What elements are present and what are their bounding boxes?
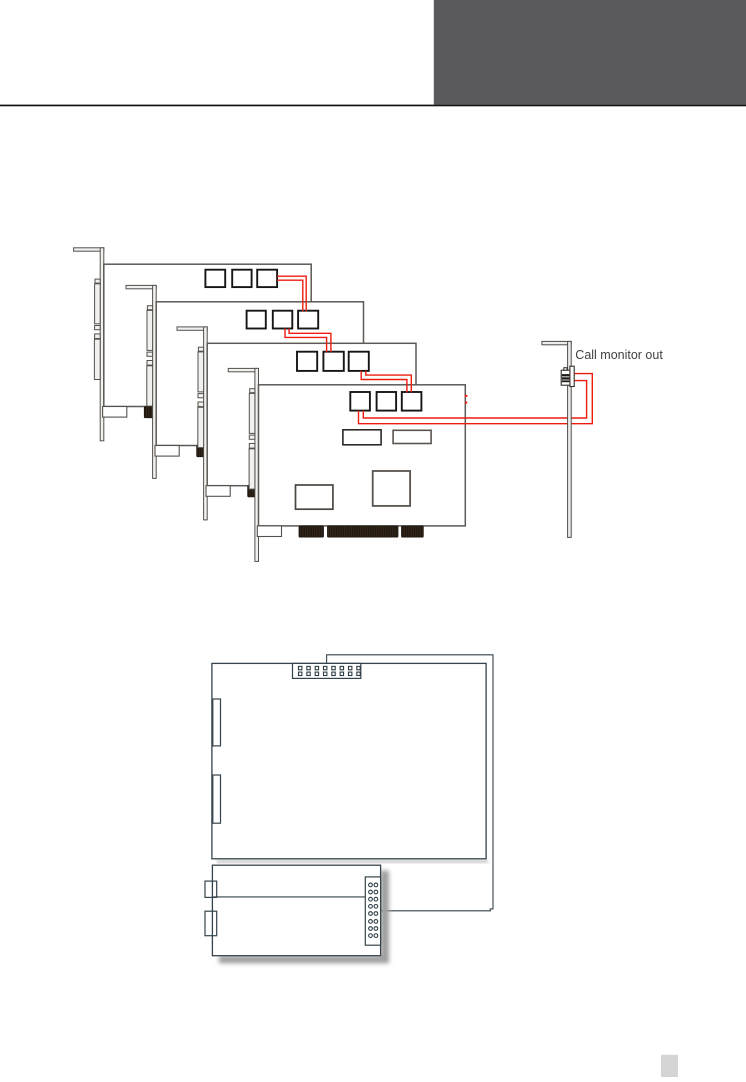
card 4 three pin-header squares — [350, 392, 421, 411]
card 4 PCI edge fingers — [299, 526, 423, 537]
call monitor connector ridges — [562, 374, 570, 382]
small card pin connector block — [365, 877, 380, 945]
card 1 PCI edge fingers — [144, 407, 268, 418]
card 2 board — [156, 302, 363, 446]
card 3 PCI edge fingers — [248, 486, 372, 497]
main board outline — [212, 663, 486, 858]
daughter board back outline — [327, 655, 493, 911]
small card left tab 1 — [205, 881, 217, 897]
pin header contacts — [299, 666, 361, 675]
card 2 bottom foot — [155, 446, 179, 457]
wire pair card4 to call monitor bracket (outer) — [359, 374, 593, 424]
small card left tab 2 — [205, 911, 217, 936]
call monitor connector plate — [570, 366, 574, 386]
page number gray block — [661, 1055, 678, 1077]
red wire stubs at card4 right edge — [465, 395, 468, 397]
main board left socket tab 1 — [213, 699, 221, 746]
wire pair card3 to card4 (inner) — [366, 371, 412, 393]
call monitor bracket bar — [568, 341, 572, 537]
card 4 bottom foot — [257, 526, 281, 537]
wire pair card2 to card3 (inner) — [289, 329, 331, 353]
wire pair card4 to call monitor bracket (inner) — [363, 381, 586, 418]
main board pin header — [293, 663, 361, 678]
card 4 bracket — [228, 368, 258, 561]
wire pair card2 to card3 (outer) — [285, 329, 327, 353]
svg-text:Call monitor out: Call monitor out — [575, 347, 663, 362]
card 4 board — [259, 385, 466, 526]
header dark gray banner — [434, 0, 746, 105]
small card divider line — [212, 896, 365, 898]
main board left socket tab 2 — [213, 775, 221, 823]
card 1 board — [104, 264, 311, 406]
card 1 three pin-header squares — [205, 270, 277, 287]
card 2 PCI edge fingers — [197, 446, 321, 457]
card 3 bracket — [177, 327, 207, 520]
card 2 bracket — [126, 285, 156, 478]
small card drop shadow — [219, 871, 389, 964]
card 3 board — [207, 343, 416, 485]
small card outline — [212, 865, 380, 956]
wire pair card1 to card2 (outer) — [277, 276, 306, 311]
card 1 bottom foot — [103, 407, 127, 418]
wire pair card1 to card2 (inner) — [277, 280, 303, 311]
call monitor connector body — [561, 370, 570, 385]
main board bottom shadow — [217, 860, 488, 863]
card 1 bracket — [74, 248, 104, 441]
connector pin circles — [369, 883, 378, 937]
wire pair card3 to card4 (outer) — [361, 371, 407, 393]
card 2 three pin-header squares — [247, 311, 319, 329]
call monitor bracket top tab — [542, 341, 571, 344]
call monitor connector nub — [564, 368, 567, 371]
card 3 three pin-header squares — [297, 352, 369, 371]
card 4 component rectangles — [343, 430, 381, 445]
card 3 bottom foot — [206, 486, 230, 497]
header rule line — [0, 105, 746, 107]
